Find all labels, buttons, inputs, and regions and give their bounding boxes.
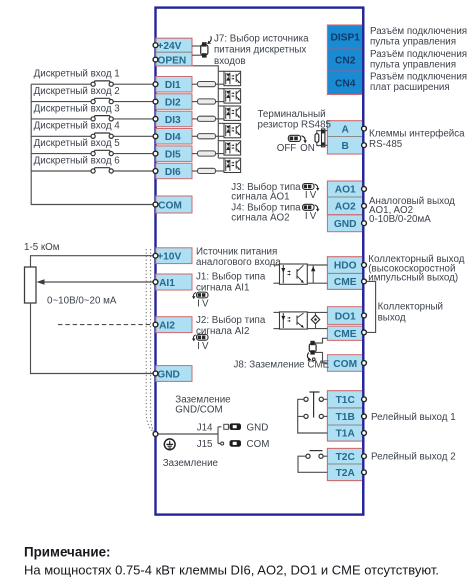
wire DI5 to resistor bbox=[192, 153, 198, 155]
potentiometer 1-5 kOhm bbox=[25, 267, 37, 303]
wire opto to CME2 bbox=[307, 328, 327, 330]
svg-text:сигнала AO1: сигнала AO1 bbox=[231, 192, 289, 203]
svg-text:J8: Заземление CME: J8: Заземление CME bbox=[234, 360, 330, 371]
wire rail stub DI3 bbox=[218, 105, 224, 107]
svg-text:V: V bbox=[202, 299, 209, 310]
wire resistor to optocoupler DI4 bbox=[216, 135, 225, 137]
wire resistor to optocoupler DI3 bbox=[216, 118, 225, 120]
relay contact T1 changeover bbox=[304, 392, 324, 419]
svg-text:Дискретный вход 4: Дискретный вход 4 bbox=[34, 121, 121, 132]
resistor DI6 input bbox=[198, 168, 216, 173]
svg-text:COM: COM bbox=[333, 359, 357, 370]
svg-text:GND: GND bbox=[157, 369, 180, 380]
terminal AI2 bbox=[156, 317, 192, 333]
svg-text:I: I bbox=[305, 190, 308, 201]
potentiometer wiper arrow bbox=[37, 279, 45, 285]
node AO1 node bbox=[362, 187, 367, 192]
svg-text:DO1: DO1 bbox=[335, 311, 356, 322]
svg-text:На мощностях 0.75-4 кВт клеммы: На мощностях 0.75-4 кВт клеммы DI6, AO2,… bbox=[24, 563, 439, 578]
wire CME link bracket bbox=[366, 281, 375, 332]
optocoupler DI4 input bbox=[224, 123, 241, 137]
node DO1 node bbox=[362, 313, 367, 318]
wire cable shield dotted line 1 bbox=[146, 249, 154, 433]
node A node bbox=[362, 126, 367, 131]
switch RS485 termination jumper bbox=[288, 135, 307, 143]
jumper J14 bbox=[224, 423, 241, 430]
wire +24V to J7 wire bbox=[192, 45, 202, 47]
wire header to A bbox=[325, 130, 328, 132]
wire ground junction wire bbox=[156, 427, 222, 444]
node DI6 node bbox=[153, 169, 158, 174]
wire DI3 switch left lead bbox=[31, 118, 91, 120]
svg-text:Клеммы интерфейса: Клеммы интерфейса bbox=[369, 128, 465, 139]
terminal DO1 bbox=[327, 307, 363, 325]
svg-text:DI4: DI4 bbox=[165, 132, 181, 143]
frame right border overlay bbox=[362, 8, 364, 515]
svg-text:Примечание:: Примечание: bbox=[24, 545, 111, 560]
optocoupler DI1 input bbox=[224, 71, 241, 85]
wire OPEN to optocoupler rail bbox=[193, 66, 219, 72]
terminal AI1 bbox=[156, 274, 192, 290]
svg-text:OPEN: OPEN bbox=[157, 55, 186, 66]
svg-text:1-5 кОм: 1-5 кОм bbox=[24, 242, 60, 253]
svg-text:GND: GND bbox=[247, 423, 269, 434]
wire opto to HDO bbox=[307, 264, 327, 266]
switch DI3 contact bbox=[91, 116, 113, 121]
svg-text:J1: Выбор типа: J1: Выбор типа bbox=[196, 271, 266, 282]
svg-text:DI6: DI6 bbox=[165, 167, 181, 178]
wire T2 common to T2A bbox=[298, 456, 327, 472]
svg-text:J2: Выбор типа: J2: Выбор типа bbox=[196, 315, 266, 326]
wire +10V supply wire bbox=[31, 256, 156, 267]
svg-text:J14: J14 bbox=[197, 423, 213, 434]
wire rail stub DI2 bbox=[218, 88, 224, 90]
switch DI2 contact bbox=[91, 98, 113, 103]
terminal group HDO/CME bbox=[327, 257, 363, 290]
svg-text:COM: COM bbox=[247, 439, 270, 450]
svg-text:плат расширения: плат расширения bbox=[370, 82, 450, 93]
node B node bbox=[362, 143, 367, 148]
wire T1C contact to box bbox=[323, 398, 327, 400]
optocoupler DO1 output bbox=[280, 312, 308, 329]
terminal GND bbox=[156, 366, 192, 382]
node COM output node bbox=[362, 361, 367, 366]
wire OPEN to J7 wire bbox=[192, 54, 202, 56]
terminal DI2 bbox=[156, 94, 192, 110]
svg-text:I: I bbox=[197, 299, 200, 310]
terminal group A/B bbox=[327, 121, 363, 154]
jumper J7 bbox=[201, 36, 212, 57]
node DI4 node bbox=[153, 134, 158, 139]
svg-text:CME: CME bbox=[334, 277, 357, 288]
wire DI2 switch right lead bbox=[113, 101, 155, 103]
svg-text:T1B: T1B bbox=[336, 412, 355, 423]
terminal COM bbox=[156, 196, 192, 213]
node HDO node bbox=[362, 263, 367, 268]
svg-text:Терминальный: Терминальный bbox=[258, 109, 326, 120]
jumper J2 bbox=[192, 334, 208, 341]
svg-text:T1A: T1A bbox=[336, 429, 356, 440]
svg-text:Коллекторный: Коллекторный bbox=[378, 302, 443, 313]
node ground junction bbox=[153, 432, 158, 437]
wire DI4 switch right lead bbox=[113, 135, 155, 137]
svg-text:I: I bbox=[305, 211, 308, 222]
terminal DI5 bbox=[156, 146, 192, 162]
terminal CME 2 bbox=[327, 326, 363, 340]
wire DI4 to resistor bbox=[192, 135, 198, 137]
protection diode DO1 bbox=[311, 312, 319, 328]
switch DI1 contact bbox=[91, 81, 113, 86]
svg-text:V: V bbox=[310, 190, 317, 201]
wire T1 common to T1A bbox=[298, 399, 328, 433]
svg-text:питания дискретных: питания дискретных bbox=[214, 45, 306, 56]
wire J8 to CME2 bbox=[315, 338, 328, 343]
svg-text:B: B bbox=[342, 141, 349, 152]
wire CME stub left bbox=[274, 282, 280, 284]
wire AI2 dashed wire bbox=[58, 324, 156, 326]
wire AI1 wiper wire bbox=[43, 281, 156, 283]
svg-text:Релейный выход 1: Релейный выход 1 bbox=[371, 412, 456, 423]
wire T1B contact to box bbox=[323, 415, 327, 417]
svg-text:0-10В/0-20мА: 0-10В/0-20мА bbox=[369, 214, 431, 225]
terminal DI6 bbox=[156, 163, 192, 179]
wire resistor to optocoupler DI5 bbox=[216, 153, 225, 155]
node DI1 node bbox=[153, 82, 158, 87]
svg-text:Разъём подключения: Разъём подключения bbox=[370, 49, 467, 60]
node OPEN node bbox=[153, 57, 158, 62]
wire J8 to COM bbox=[315, 352, 328, 362]
optocoupler DI2 input bbox=[224, 89, 241, 103]
wire CME2 stub left bbox=[274, 328, 280, 330]
wire resistor to A wire bbox=[317, 131, 322, 134]
svg-text:J7: Выбор источника: J7: Выбор источника bbox=[214, 33, 309, 44]
node COM node bbox=[153, 202, 158, 207]
terminal GND analog bbox=[327, 215, 363, 232]
relay contact T2 bbox=[306, 451, 323, 459]
wire DI2 switch left lead bbox=[31, 101, 91, 103]
wire resistor to B wire bbox=[317, 142, 322, 145]
switch DI4 contact bbox=[91, 133, 113, 138]
wire DI3 switch right lead bbox=[113, 118, 155, 120]
svg-text:CME: CME bbox=[334, 329, 357, 340]
wire opto to DO1 bbox=[307, 311, 327, 313]
svg-text:Дискретный вход 1: Дискретный вход 1 bbox=[34, 69, 120, 80]
wire DI2 to resistor bbox=[192, 101, 198, 103]
svg-text:Дискретный вход 6: Дискретный вход 6 bbox=[34, 155, 121, 166]
protective earth symbol bbox=[164, 439, 175, 450]
svg-text:Разъём подключения: Разъём подключения bbox=[370, 72, 467, 83]
wire DI1 switch left lead bbox=[31, 83, 91, 85]
node T1B node bbox=[362, 414, 367, 419]
svg-text:AI2: AI2 bbox=[159, 321, 175, 332]
svg-text:импульсный выход): импульсный выход) bbox=[368, 272, 458, 283]
wire DI5 switch right lead bbox=[113, 153, 155, 155]
wire GND return wire bbox=[31, 303, 156, 374]
svg-text:сигнала AO2: сигнала AO2 bbox=[231, 213, 289, 224]
svg-text:Заземление: Заземление bbox=[163, 458, 219, 469]
svg-text:GND/COM: GND/COM bbox=[175, 404, 222, 415]
terminal group DISP1/CN2/CN4 bbox=[327, 25, 363, 95]
resistor DI1 input bbox=[198, 82, 216, 87]
terminal group T1C/T1B/T1A bbox=[327, 391, 363, 441]
svg-text:T1C: T1C bbox=[336, 395, 356, 406]
switch DI5 contact bbox=[91, 150, 113, 155]
svg-text:RS-485: RS-485 bbox=[369, 139, 403, 150]
wire DI3 to resistor bbox=[192, 118, 198, 120]
svg-text:OFF: OFF bbox=[277, 143, 297, 154]
optocoupler DI5 input bbox=[224, 141, 241, 155]
wire DI4 switch left lead bbox=[31, 135, 91, 137]
node GND analog node bbox=[362, 221, 367, 226]
svg-text:AO1: AO1 bbox=[335, 185, 356, 196]
node GND node bbox=[153, 371, 158, 376]
wire DI1 switch right lead bbox=[113, 83, 155, 85]
terminal DI3 bbox=[156, 111, 192, 127]
inverter body frame bbox=[156, 8, 364, 515]
svg-text:CN4: CN4 bbox=[335, 78, 356, 89]
node T2C node bbox=[362, 454, 367, 459]
svg-text:I: I bbox=[197, 341, 200, 352]
resistor DI3 input bbox=[198, 116, 216, 121]
svg-text:Разъём подключения: Разъём подключения bbox=[370, 26, 467, 37]
node DI5 node bbox=[153, 151, 158, 156]
node AI2 node bbox=[153, 322, 158, 327]
node T2A node bbox=[362, 470, 367, 475]
svg-text:COM: COM bbox=[158, 200, 182, 211]
resistor DI4 input bbox=[198, 134, 216, 139]
svg-text:Дискретный вход 3: Дискретный вход 3 bbox=[34, 103, 121, 114]
terminal group AO1/AO2 bbox=[327, 181, 363, 215]
wire DI6 switch left lead bbox=[31, 170, 91, 172]
resistor RS485 termination bbox=[315, 134, 319, 143]
switch DI6 contact bbox=[91, 168, 113, 173]
terminal +10V bbox=[156, 248, 192, 264]
svg-text:J15: J15 bbox=[197, 439, 213, 450]
jumper J4 bbox=[303, 204, 320, 211]
node +10V node bbox=[153, 253, 158, 258]
wire DO1 stub left bbox=[274, 311, 280, 313]
svg-text:пульта управления: пульта управления bbox=[370, 60, 456, 71]
optocoupler DI6 input bbox=[224, 158, 241, 172]
terminal DI1 bbox=[156, 77, 192, 93]
svg-text:DI3: DI3 bbox=[165, 115, 181, 126]
jumper J1 bbox=[192, 292, 208, 299]
wire cable shield dotted line 2 bbox=[151, 249, 156, 433]
svg-text:HDO: HDO bbox=[334, 261, 357, 272]
svg-text:+10V: +10V bbox=[157, 252, 181, 263]
optocoupler supply rail bbox=[217, 71, 219, 158]
wire resistor to optocoupler DI6 bbox=[216, 170, 225, 172]
svg-text:выход: выход bbox=[378, 312, 406, 323]
svg-text:A: A bbox=[342, 124, 350, 135]
svg-text:DI1: DI1 bbox=[165, 80, 181, 91]
node CME node bbox=[362, 279, 367, 284]
terminal group T2C/T2A bbox=[327, 448, 363, 480]
wire rail stub DI1 bbox=[218, 70, 224, 72]
svg-text:T2A: T2A bbox=[336, 468, 356, 479]
svg-text:DI5: DI5 bbox=[165, 150, 181, 161]
svg-text:T2C: T2C bbox=[336, 452, 356, 463]
svg-text:CN2: CN2 bbox=[335, 56, 356, 67]
node CME 2 node bbox=[362, 330, 367, 335]
wire rail stub DI5 bbox=[218, 140, 224, 142]
svg-text:Дискретный вход 2: Дискретный вход 2 bbox=[34, 86, 120, 97]
node DI3 node bbox=[153, 117, 158, 122]
node AO2 node bbox=[362, 204, 367, 209]
wire digital input common bus bbox=[31, 84, 155, 204]
pin J15 open bbox=[221, 442, 224, 445]
svg-text:сигнала AI2: сигнала AI2 bbox=[196, 326, 249, 337]
wire rail stub DI6 bbox=[218, 157, 224, 159]
wire resistor to optocoupler DI1 bbox=[216, 83, 225, 85]
optocoupler DI3 input bbox=[224, 106, 241, 120]
svg-text:пульта управления: пульта управления bbox=[370, 36, 456, 47]
wire DI6 switch right lead bbox=[113, 170, 155, 172]
optocoupler HDO output bbox=[280, 264, 308, 284]
svg-text:+24V: +24V bbox=[157, 41, 181, 52]
svg-text:V: V bbox=[310, 211, 317, 222]
svg-text:0~10В/0~20 мА: 0~10В/0~20 мА bbox=[47, 296, 117, 307]
jumper J15 bbox=[230, 440, 242, 447]
svg-text:DI2: DI2 bbox=[165, 98, 181, 109]
wire T2C contact to box bbox=[323, 455, 327, 457]
node +24V node bbox=[153, 43, 158, 48]
svg-text:ON: ON bbox=[300, 143, 315, 154]
wire opto to CME bbox=[307, 282, 327, 284]
wire DI5 switch left lead bbox=[31, 153, 91, 155]
jumper J3 bbox=[303, 184, 320, 191]
wire HDO stub left bbox=[274, 264, 280, 266]
node T1C node bbox=[362, 397, 367, 402]
wire DI6 to resistor bbox=[192, 170, 198, 172]
node DI2 node bbox=[153, 99, 158, 104]
svg-text:Дискретный вход 5: Дискретный вход 5 bbox=[34, 138, 121, 149]
svg-text:V: V bbox=[202, 341, 209, 352]
jumper J8 bbox=[307, 341, 316, 361]
terminal COM output bbox=[327, 355, 363, 372]
svg-text:DISP1: DISP1 bbox=[330, 33, 360, 44]
wire header to B bbox=[325, 144, 328, 146]
svg-text:GND: GND bbox=[334, 219, 357, 230]
svg-text:резистор RS485: резистор RS485 bbox=[258, 119, 332, 130]
svg-text:Релейный выход 2: Релейный выход 2 bbox=[371, 452, 456, 463]
wire DI1 to resistor bbox=[192, 83, 198, 85]
wire rail stub DI4 bbox=[218, 122, 224, 124]
wire resistor to optocoupler DI2 bbox=[216, 101, 225, 103]
svg-text:AO2: AO2 bbox=[335, 202, 356, 213]
svg-text:аналогового входа: аналогового входа bbox=[196, 257, 281, 268]
connector RS485 header bbox=[322, 129, 325, 147]
terminal DI4 bbox=[156, 129, 192, 145]
svg-text:AI1: AI1 bbox=[159, 278, 175, 289]
resistor DI2 input bbox=[198, 99, 216, 104]
node AI1 node bbox=[153, 280, 158, 285]
terminal +24V / OPEN pair bbox=[156, 38, 192, 66]
resistor DI5 input bbox=[198, 151, 216, 156]
freewheel arrow HDO bbox=[311, 266, 315, 284]
node T1A node bbox=[362, 431, 367, 436]
